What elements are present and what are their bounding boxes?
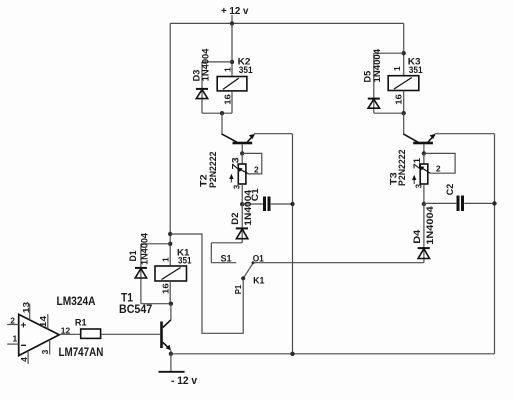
wire T3 emitter to rail — [435, 133, 495, 135]
svg-text:2: 2 — [436, 163, 441, 173]
svg-text:4: 4 — [19, 357, 29, 362]
transistor T3 — [403, 113, 435, 153]
node K2 pin16 junction — [220, 111, 224, 115]
svg-text:3: 3 — [233, 184, 242, 189]
svg-text:14: 14 — [38, 316, 48, 328]
svg-text:D4: D4 — [412, 229, 423, 244]
svg-text:D1: D1 — [128, 250, 139, 262]
wire T2 emitter to rail — [254, 133, 293, 135]
svg-text:+ 12 v: + 12 v — [221, 5, 249, 17]
svg-text:2: 2 — [10, 315, 15, 325]
wire top +12V rail — [170, 22, 404, 24]
svg-text:1N4004: 1N4004 — [140, 232, 151, 265]
capacitor C1 — [242, 197, 292, 212]
switch K1 arm — [241, 261, 254, 280]
svg-text:1: 1 — [160, 257, 170, 262]
svg-text:P1: P1 — [233, 285, 243, 295]
wire K1 contact feed — [170, 234, 243, 333]
wire K3 feed vertical — [403, 23, 405, 75]
node D1 top junction — [168, 242, 172, 246]
svg-text:1N4004: 1N4004 — [201, 48, 212, 82]
svg-text:3: 3 — [40, 349, 50, 354]
svg-text:1: 1 — [392, 66, 402, 71]
transistor T1 — [160, 304, 171, 354]
node T1 collector junction — [169, 302, 173, 306]
svg-text:D2: D2 — [230, 213, 241, 225]
op-amp U1 — [7, 304, 59, 364]
wire left vertical main (+12 to K1) — [169, 23, 171, 266]
svg-text:1N4004: 1N4004 — [243, 189, 254, 226]
node D5 top junction — [402, 51, 406, 55]
wire right rail vertical — [494, 134, 496, 354]
svg-text:BC547: BC547 — [119, 304, 152, 316]
ground -12V terminal — [159, 354, 185, 372]
svg-text:Z3: Z3 — [231, 157, 241, 170]
svg-text:LM324A: LM324A — [57, 296, 96, 308]
potentiometer Z1 — [412, 153, 455, 204]
diode D2 — [211, 204, 248, 263]
capacitor C2 — [424, 196, 495, 212]
svg-text:O1: O1 — [253, 253, 264, 263]
relay K1 — [155, 266, 187, 281]
diode D1 — [135, 244, 171, 304]
potentiometer Z3 — [229, 153, 262, 204]
transistor T2 — [221, 113, 254, 153]
svg-text:3: 3 — [414, 183, 423, 188]
svg-text:P2N2222: P2N2222 — [208, 152, 219, 189]
wire K2 feed vertical — [231, 23, 233, 76]
wire K3 pin16 — [403, 91, 405, 114]
node K3 pin16 junction — [402, 111, 406, 115]
wire K1 pin16 — [169, 281, 171, 304]
node C2 right junction — [492, 201, 496, 205]
node top rail junction — [230, 21, 234, 25]
diode D4 — [418, 204, 430, 263]
svg-text:2: 2 — [254, 165, 259, 175]
diode D5 — [368, 53, 404, 113]
node T2 base junction — [240, 151, 244, 155]
svg-text:+: + — [21, 321, 27, 332]
wire R1 to T1 base — [101, 333, 161, 335]
node C1 right junction — [290, 202, 294, 206]
svg-text:1N4004: 1N4004 — [425, 205, 436, 244]
svg-text:R1: R1 — [75, 318, 87, 329]
svg-text:13: 13 — [21, 302, 31, 314]
svg-text:P2N2222: P2N2222 — [397, 150, 408, 187]
power +12V label — [221, 5, 249, 23]
svg-text:16: 16 — [394, 94, 404, 105]
svg-text:351: 351 — [178, 255, 192, 266]
diode D3 — [196, 62, 232, 113]
wire T2 rail vertical — [292, 134, 294, 354]
relay K3 — [388, 76, 419, 91]
svg-text:1: 1 — [13, 334, 18, 344]
svg-text:16: 16 — [222, 94, 232, 105]
wire bottom rail — [171, 353, 495, 355]
svg-text:- 12 v: - 12 v — [171, 375, 198, 387]
svg-text:Z1: Z1 — [412, 158, 422, 169]
node T3 base junction — [422, 151, 426, 155]
node bottom rail T2 junction — [290, 352, 294, 356]
svg-text:1: 1 — [222, 67, 232, 72]
svg-text:C2: C2 — [445, 184, 456, 195]
switch O1 terminal wire to D4 — [253, 262, 424, 264]
svg-text:T1: T1 — [121, 292, 134, 304]
node K1 feed junction — [168, 232, 172, 236]
node D3 top junction — [230, 60, 234, 64]
node C2 left junction — [422, 202, 426, 206]
svg-text:16: 16 — [160, 283, 170, 294]
switch S1 terminal — [211, 262, 236, 264]
svg-text:351: 351 — [409, 65, 423, 76]
node T1 emitter junction — [169, 352, 173, 356]
svg-text:K1: K1 — [253, 276, 265, 287]
relay K2 — [217, 77, 247, 91]
svg-text:LM747AN: LM747AN — [59, 347, 104, 359]
resistor R1 — [81, 329, 101, 338]
node C1 left junction — [240, 202, 244, 206]
svg-text:1N4004: 1N4004 — [372, 48, 383, 82]
svg-text:351: 351 — [239, 65, 253, 76]
wire op-amp output — [59, 333, 80, 335]
svg-text:S1: S1 — [221, 253, 232, 263]
wire K2 pin16 — [231, 91, 233, 113]
